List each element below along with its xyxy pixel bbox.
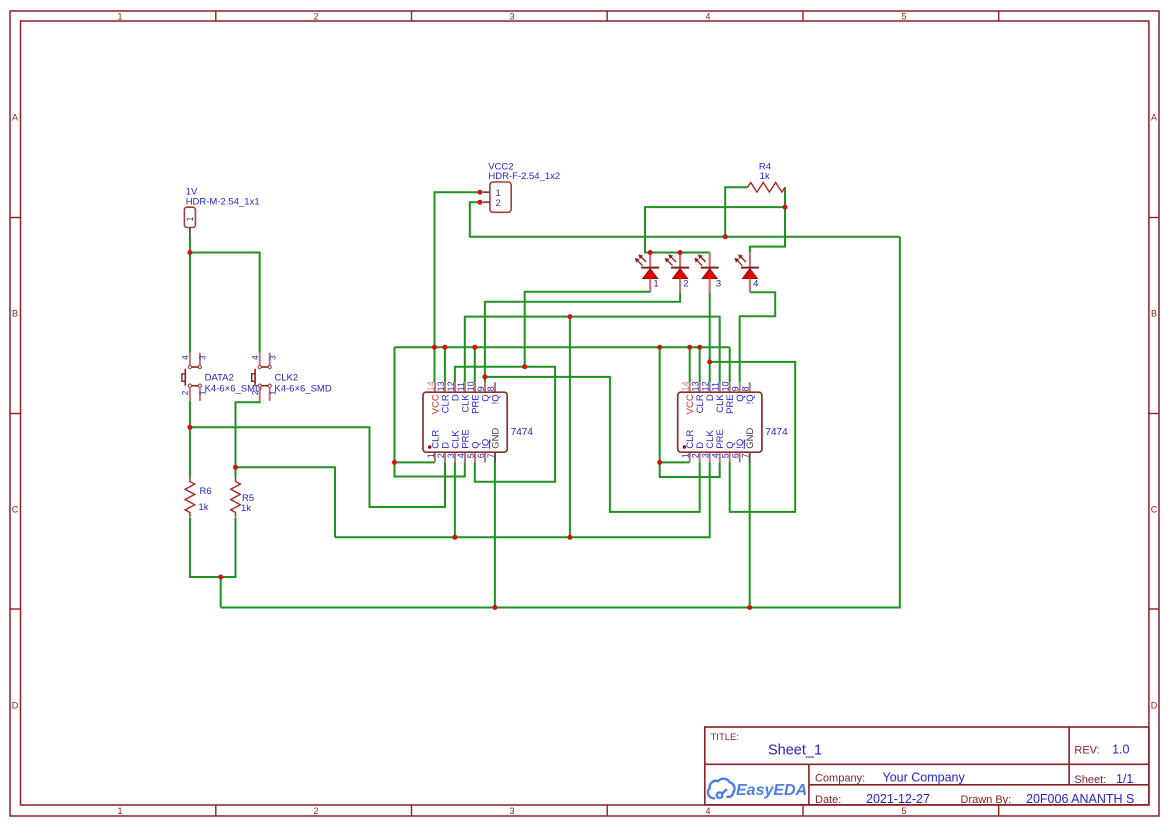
frame row labels left A-D [12, 113, 19, 711]
junction [697, 345, 702, 350]
wire VCC rail to U1 pin13 [444, 347, 446, 382]
junction [452, 535, 457, 540]
svg-text:3: 3 [269, 355, 278, 360]
wire VCC2 pin2 to right rail [470, 202, 900, 237]
wire R4 right to LED anode rail [645, 207, 785, 252]
title block TITLE label [711, 732, 740, 743]
svg-text:4: 4 [181, 355, 190, 360]
EasyEDA logo [708, 779, 807, 799]
title block grid [705, 727, 1149, 805]
title block revision value 1.0 [1112, 743, 1129, 757]
IC U1 7474 [423, 381, 533, 462]
svg-text:2: 2 [313, 12, 318, 22]
wire node to DATA2 pin4 [189, 253, 191, 353]
svg-text:13: 13 [436, 381, 446, 391]
svg-text:4: 4 [753, 278, 758, 289]
svg-text:11: 11 [711, 382, 721, 391]
junction [187, 425, 192, 430]
wire VCC rail [395, 346, 730, 348]
junction [482, 374, 487, 379]
junction [657, 460, 662, 465]
frame column labels top 1-5 [117, 12, 906, 22]
svg-text:2: 2 [496, 198, 501, 209]
wire clock rail riser [569, 317, 571, 538]
svg-text:!Q: !Q [745, 394, 756, 404]
svg-text:GND: GND [490, 427, 501, 448]
title block Date label [815, 794, 841, 806]
wire 1V pin to node [189, 237, 191, 253]
junction [687, 345, 692, 350]
svg-text:12: 12 [701, 381, 711, 391]
junction [187, 250, 192, 255]
svg-text:1k: 1k [199, 502, 209, 513]
svg-text:3: 3 [701, 453, 711, 458]
svg-text:9: 9 [731, 386, 741, 391]
wire R6 R5 bottoms join [190, 518, 236, 578]
svg-text:Your Company: Your Company [883, 771, 966, 785]
svg-text:3: 3 [716, 278, 721, 289]
junction [478, 200, 483, 205]
LED 1 [635, 252, 659, 292]
wire bottom rail [221, 237, 900, 608]
svg-text:7474: 7474 [765, 427, 788, 438]
junction [472, 345, 477, 350]
junction [218, 575, 223, 580]
svg-text:3: 3 [199, 355, 208, 360]
svg-text:B: B [12, 309, 18, 319]
push button DATA2 K4-6x6_SMD [181, 353, 262, 401]
junction [707, 359, 712, 364]
svg-text:2: 2 [691, 453, 701, 458]
junction [567, 314, 572, 319]
svg-text:CLK2: CLK2 [274, 372, 298, 383]
svg-text:A: A [1151, 113, 1157, 123]
svg-text:12: 12 [446, 381, 456, 391]
svg-text:5: 5 [466, 453, 476, 458]
svg-text:1: 1 [117, 12, 122, 22]
wire U1 pin9 to U2 pin2 D [485, 377, 700, 512]
wire VCC2 pin1 to VCC rail [435, 192, 481, 347]
junction [723, 234, 728, 239]
wire resistor join to bottom rail [220, 577, 222, 608]
junction [442, 345, 447, 350]
wire VCC rail to U2 pin1 junction [659, 347, 661, 462]
svg-text:DATA2: DATA2 [205, 372, 234, 383]
svg-text:8: 8 [741, 386, 751, 391]
wire clock top rail U1 pin11 to U2 pin11 [465, 317, 720, 383]
junction [233, 465, 238, 470]
wire junction to R6 top [189, 427, 191, 477]
wire clock rail bottom to IC U2 pin3 [335, 462, 710, 537]
wire LED4 cathode to U2 pin9 Q [740, 292, 776, 382]
IC U2 7474 [678, 381, 788, 462]
wire VCC rail to U1 pin14 [434, 347, 436, 382]
resistor R4 1k [748, 161, 785, 192]
wire VCC rail to U1 pin10 [474, 347, 476, 382]
svg-text:EasyEDA: EasyEDA [736, 782, 807, 799]
svg-text:13: 13 [691, 381, 701, 391]
svg-text:20F006 ANANTH S: 20F006 ANANTH S [1026, 792, 1134, 806]
svg-text:11: 11 [456, 382, 466, 391]
push button CLK2 K4-6x6_SMD [251, 353, 332, 401]
svg-text:A: A [12, 113, 18, 123]
wire VCC rail right end to U2 pin10 [729, 347, 731, 382]
wire U1 pin1 junction to pin4 PRE [395, 462, 465, 476]
svg-text:Sheet_1: Sheet_1 [768, 743, 822, 759]
svg-text:1/1: 1/1 [1116, 772, 1133, 786]
svg-text:8: 8 [486, 386, 496, 391]
wire DATA2 junction to IC U1 pin2 D [190, 427, 445, 507]
svg-text:REV:: REV: [1074, 745, 1099, 757]
svg-text:4: 4 [705, 806, 710, 816]
svg-text:4: 4 [251, 355, 260, 360]
wire IC U1 pin7 GND to bottom rail [494, 463, 496, 608]
svg-text:B: B [1151, 309, 1157, 319]
frame row labels right A-D [1151, 113, 1158, 711]
LED 4 [735, 252, 759, 292]
svg-text:1: 1 [653, 278, 658, 289]
svg-text:Drawn By:: Drawn By: [961, 794, 1012, 806]
junction [678, 250, 683, 255]
svg-text:Company:: Company: [815, 772, 865, 784]
svg-text:2021-12-27: 2021-12-27 [866, 792, 930, 806]
svg-text:10: 10 [721, 381, 731, 391]
svg-text:7474: 7474 [511, 427, 534, 438]
svg-text:D: D [1151, 701, 1158, 711]
wire U1 Q pin5 to D pin12 loop [455, 367, 555, 482]
svg-text:7: 7 [486, 453, 496, 458]
svg-text:K4-6×6_SMD: K4-6×6_SMD [274, 383, 331, 394]
wire R5 junction to clock rail [236, 467, 336, 537]
title block drawn by value 20F006 ANANTH S [1026, 792, 1134, 806]
svg-text:TITLE:: TITLE: [711, 732, 740, 743]
svg-text:4: 4 [705, 12, 710, 22]
svg-text:4: 4 [711, 453, 721, 458]
svg-text:C: C [1151, 505, 1158, 515]
resistor R6 1k [185, 477, 212, 517]
svg-text:Date:: Date: [815, 794, 841, 806]
title block Company label [815, 772, 865, 784]
wire U1 pin1 junction to pin1 [395, 461, 436, 463]
svg-text:7: 7 [741, 453, 751, 458]
frame ruler ticks top [216, 11, 999, 21]
svg-text:2: 2 [683, 278, 688, 289]
junction [522, 364, 527, 369]
frame ruler ticks right [1149, 218, 1159, 610]
wire IC U2 pin7 GND to bottom rail [749, 463, 751, 608]
title block REV label [1074, 745, 1099, 757]
title block company value Your Company [883, 771, 966, 785]
svg-text:14: 14 [426, 381, 436, 391]
wire VCC rail to U2 pin13 [699, 347, 701, 382]
svg-text:3: 3 [509, 12, 514, 22]
wire LED1 cathode to U1 loop [525, 292, 651, 367]
svg-text:3: 3 [446, 453, 456, 458]
title block sheet name Sheet_1 [768, 743, 822, 759]
svg-text:4: 4 [456, 453, 466, 458]
wire R5 junction to R5 top [235, 467, 237, 477]
junction [478, 190, 483, 195]
svg-text:!Q: !Q [490, 394, 501, 404]
svg-text:HDR-M-2.54_1x1: HDR-M-2.54_1x1 [186, 196, 260, 207]
title block date value 2021-12-27 [866, 792, 930, 806]
LED 3 [694, 252, 721, 292]
frame column labels bottom 1-5 [117, 806, 906, 816]
junction [648, 250, 653, 255]
wire node to CLK2 pin4 [190, 253, 260, 353]
junction [392, 460, 397, 465]
svg-text:6: 6 [476, 453, 486, 458]
svg-text:1k: 1k [241, 503, 251, 514]
svg-text:2: 2 [313, 806, 318, 816]
wire U2 pin1 junction to pin1 [660, 461, 690, 463]
svg-text:GND: GND [745, 427, 756, 448]
wire CLK2 pin2 to R5 junction [236, 401, 260, 467]
LED 2 [665, 252, 689, 292]
wire U2 pin1 junction to pin4 PRE [660, 462, 720, 477]
svg-text:5: 5 [901, 12, 906, 22]
title block Sheet label [1074, 774, 1106, 786]
header 1V HDR-M-2.54_1x1 [184, 186, 259, 237]
junction [492, 605, 497, 610]
header VCC2 HDR-F-2.54_1x2 [483, 162, 560, 213]
wire LED2 cathode to U1 pin9 Q [485, 292, 680, 382]
svg-text:2: 2 [251, 390, 260, 395]
wire LED3 cathode to U2 pin12 [709, 292, 711, 382]
svg-text:1.0: 1.0 [1112, 743, 1129, 757]
svg-text:C: C [12, 505, 19, 515]
svg-text:HDR-F-2.54_1x2: HDR-F-2.54_1x2 [488, 171, 560, 182]
wire tap to R4 left [725, 187, 747, 236]
wire VCC rail to U2 pin14 [689, 347, 691, 382]
svg-text:D: D [12, 701, 19, 711]
wire R4 right to LED4 anode [750, 187, 785, 252]
svg-text:1: 1 [185, 216, 195, 221]
junction [747, 605, 752, 610]
svg-text:3: 3 [509, 806, 514, 816]
junction [783, 205, 788, 210]
title block sheet value 1/1 [1116, 772, 1133, 786]
svg-text:5: 5 [901, 806, 906, 816]
svg-text:2: 2 [436, 453, 446, 458]
frame ruler ticks bottom [216, 805, 999, 816]
svg-text:1: 1 [117, 806, 122, 816]
svg-text:1k: 1k [760, 171, 770, 182]
resistor R5 1k [231, 477, 254, 517]
svg-text:1: 1 [681, 453, 691, 458]
junction [657, 345, 662, 350]
wire DATA2 pin2 to junction [189, 401, 191, 427]
wire U2 Q pin5 to D pin12 loop [710, 362, 796, 512]
svg-text:2: 2 [181, 390, 190, 395]
svg-text:1: 1 [426, 453, 436, 458]
svg-text:R6: R6 [200, 486, 212, 497]
svg-text:5: 5 [721, 453, 731, 458]
junction [432, 345, 437, 350]
svg-text:14: 14 [681, 381, 691, 391]
svg-text:Sheet:: Sheet: [1074, 774, 1106, 786]
frame ruler ticks left [10, 218, 21, 610]
junction [567, 535, 572, 540]
wire clock rail to IC U1 pin3 [454, 462, 456, 537]
wire VCC rail left end to U1 pin1 junction [394, 347, 396, 462]
svg-text:6: 6 [731, 453, 741, 458]
svg-text:10: 10 [466, 381, 476, 391]
title block Drawn By label [961, 794, 1012, 806]
svg-text:9: 9 [476, 386, 486, 391]
